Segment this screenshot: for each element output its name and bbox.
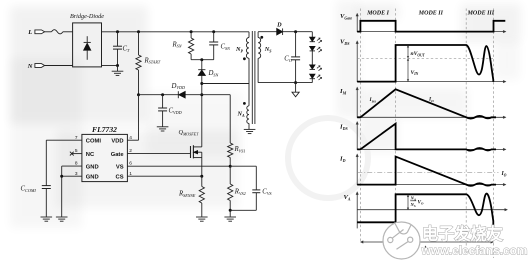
waveform IM xyxy=(357,89,496,118)
capacitor CO xyxy=(295,32,297,57)
waveform VDS xyxy=(357,45,493,82)
faint circular watermark center xyxy=(288,118,368,198)
LED D4 xyxy=(310,74,315,78)
wire LED bottom xyxy=(311,79,313,83)
waveform VGate xyxy=(357,21,505,32)
arrow VIN xyxy=(407,59,409,81)
wire line A to transformer xyxy=(202,83,249,85)
ground secondary xyxy=(295,83,297,93)
dashed level VIN xyxy=(357,57,493,59)
pin 2 Gate wire xyxy=(127,153,190,155)
node top rail / RSTART xyxy=(137,30,140,33)
dash-dot level IO xyxy=(357,172,498,174)
svg-text:Gate: Gate xyxy=(111,152,125,158)
wire L to bridge xyxy=(63,31,73,33)
LED D3 xyxy=(310,65,315,69)
svg-text:MODE I: MODE I xyxy=(366,10,390,16)
pin 1 CS wire xyxy=(127,175,201,177)
node CS / source / RSENSE xyxy=(200,175,203,178)
svg-text:N: N xyxy=(27,63,33,70)
waveform dashed gridline t3 xyxy=(493,9,495,259)
capacitor CCOMI xyxy=(45,140,47,185)
wire LED mid xyxy=(311,51,313,65)
node top rail / RSN xyxy=(190,30,193,33)
node RSTART / VDD rail xyxy=(137,93,140,96)
node top rail / CSN xyxy=(212,30,215,33)
LED D2 xyxy=(310,46,315,50)
svg-text:L: L xyxy=(27,29,32,36)
node VDD line B xyxy=(200,93,203,96)
svg-text:www.elecfans.com: www.elecfans.com xyxy=(421,244,528,258)
node bridge+ / CT xyxy=(116,30,119,33)
pin 8 GND wire xyxy=(62,165,82,167)
watermark logo circle xyxy=(383,222,420,259)
plot VGate axes xyxy=(356,16,358,32)
resistor RSTART xyxy=(138,32,140,55)
ground under CCOMI xyxy=(41,216,53,218)
plot ID axes xyxy=(356,156,358,185)
wire N to bridge xyxy=(45,65,73,67)
plot IM axes xyxy=(356,90,358,118)
node CT bottom xyxy=(116,64,119,67)
time span arrow tS xyxy=(363,241,492,243)
svg-text:Bridge-Diode: Bridge-Diode xyxy=(70,13,104,20)
waveform dashed gridline t2 xyxy=(465,9,467,257)
pin 7 COMI wire xyxy=(46,139,82,141)
diode D output xyxy=(277,28,283,35)
svg-text:NC: NC xyxy=(86,152,95,158)
svg-text:电子发烧友: 电子发烧友 xyxy=(422,225,504,244)
svg-text:GND: GND xyxy=(86,164,99,170)
resistor RSN xyxy=(190,32,192,38)
ground under RVS2 xyxy=(229,210,231,217)
wire VDD riser to pin 4 xyxy=(138,95,140,141)
wire drain vertical xyxy=(201,76,203,147)
diode DSN xyxy=(201,60,203,70)
capacitor CSN xyxy=(213,32,215,42)
transformer core xyxy=(251,31,253,124)
transformer primary NP xyxy=(248,32,250,38)
wire snubber bottom bar xyxy=(191,59,214,61)
plot IDS axes xyxy=(356,124,358,150)
svg-text:VS: VS xyxy=(116,164,124,170)
node GND join xyxy=(60,175,63,178)
svg-text:COMI: COMI xyxy=(86,138,102,144)
plot VA axes xyxy=(356,194,358,228)
wire VDD line B xyxy=(139,94,231,96)
waveform dashed gridline t1 xyxy=(395,9,397,232)
polarity dot NA xyxy=(243,102,246,105)
arrow nVOUT xyxy=(407,46,409,58)
ground under CVDD xyxy=(157,126,169,128)
pin 6 VS wire xyxy=(127,165,230,167)
wire diode to LEDs xyxy=(283,31,313,33)
transformer secondary NS xyxy=(257,32,259,38)
wire line B down to RVS1 xyxy=(229,95,231,143)
transformer auxiliary NA xyxy=(248,84,250,106)
ground under GND pins xyxy=(56,216,68,218)
svg-text:MODE II: MODE II xyxy=(418,10,444,16)
waveform IDS xyxy=(357,124,496,151)
node CVDD top xyxy=(161,93,164,96)
node VS junction xyxy=(229,165,232,168)
diode DVDD xyxy=(179,91,186,98)
pin 5 NC wire with X xyxy=(72,153,82,155)
label NA NS VO fraction xyxy=(410,195,424,207)
capacitor CVDD xyxy=(162,95,164,108)
LED D1 xyxy=(310,37,315,41)
svg-text:FL7732: FL7732 xyxy=(92,125,117,134)
node RVS2 bottom xyxy=(229,209,232,212)
waveform ID xyxy=(357,157,496,186)
fuse F1 xyxy=(45,31,52,33)
ground under NA xyxy=(244,128,256,130)
capacitor CT xyxy=(117,32,119,46)
svg-text:GND: GND xyxy=(86,174,99,180)
node snubber / DSN xyxy=(200,58,203,61)
polarity dot NP xyxy=(243,57,246,60)
wire top rail xyxy=(102,31,250,33)
plot VDS axes xyxy=(356,43,358,82)
capacitor CVS xyxy=(230,165,256,167)
node CO bottom xyxy=(294,81,297,84)
svg-text:VDD: VDD xyxy=(111,138,123,144)
node aux line A xyxy=(200,82,203,85)
svg-text:MODE III: MODE III xyxy=(467,10,495,16)
node CO top xyxy=(294,30,297,33)
svg-text:D: D xyxy=(276,22,282,29)
resistor RSENSE xyxy=(201,176,203,186)
polarity dot NS xyxy=(260,36,263,39)
LED string wire xyxy=(311,32,313,38)
waveform VA xyxy=(357,194,493,228)
pin 3 GND wire xyxy=(62,175,82,177)
wire secondary bottom rail xyxy=(258,82,312,84)
svg-text:CS: CS xyxy=(116,174,124,180)
ground under RSENSE xyxy=(196,216,208,218)
wire bridge bottom output xyxy=(102,65,118,67)
arrow VA level xyxy=(407,195,409,209)
svg-text:4: 4 xyxy=(129,135,132,141)
resistor RVS1 xyxy=(228,143,233,158)
wire secondary top xyxy=(258,31,277,33)
waveform dashed gridline t0 xyxy=(359,9,361,243)
resistor RVS2 xyxy=(229,166,231,184)
ground under CT xyxy=(117,66,119,72)
